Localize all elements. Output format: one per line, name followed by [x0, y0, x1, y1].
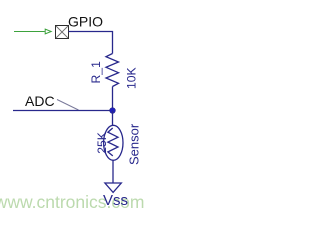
port symbol	[56, 26, 69, 39]
wire junction to sensor	[112, 111, 114, 126]
resistor R1	[106, 54, 119, 87]
wire input green	[14, 31, 45, 33]
svg-text:GPIO: GPIO	[68, 14, 103, 30]
svg-text:Vss: Vss	[103, 192, 128, 209]
svg-text:Sensor: Sensor	[126, 123, 141, 165]
wire sensor to ground	[112, 160, 114, 183]
junction	[110, 108, 116, 114]
wire GPIO net	[69, 32, 113, 54]
svg-text:R_1: R_1	[89, 61, 103, 84]
ground symbol	[105, 183, 121, 192]
ADC leader line	[57, 100, 79, 111]
sensor body (25K)	[104, 125, 123, 160]
wire ADC net	[13, 110, 113, 112]
wire resistor to junction	[112, 87, 114, 111]
svg-text:10K: 10K	[125, 67, 139, 89]
svg-text:ADC: ADC	[25, 93, 55, 109]
svg-text:25K: 25K	[95, 132, 109, 154]
input arrow	[45, 29, 51, 34]
